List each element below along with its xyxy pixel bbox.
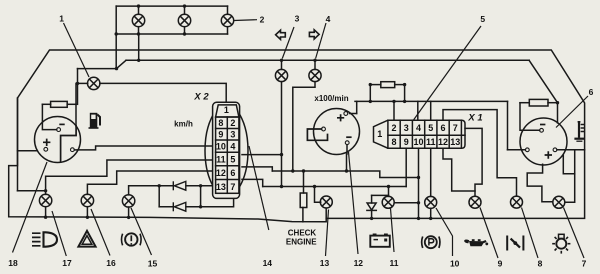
svg-text:3: 3 [295, 14, 300, 24]
svg-text:7: 7 [230, 182, 235, 192]
svg-text:14: 14 [263, 258, 273, 268]
svg-text:ENGINE: ENGINE [286, 237, 317, 246]
svg-text:17: 17 [62, 258, 72, 268]
svg-text:6: 6 [589, 87, 594, 97]
svg-text:km/h: km/h [174, 120, 193, 129]
svg-text:1: 1 [377, 129, 382, 139]
svg-text:13: 13 [320, 258, 330, 268]
svg-text:9: 9 [404, 137, 409, 147]
svg-text:CHECK: CHECK [288, 228, 317, 237]
svg-text:10: 10 [413, 137, 423, 147]
svg-text:4: 4 [230, 142, 235, 152]
svg-text:6: 6 [440, 123, 445, 133]
svg-text:11: 11 [216, 154, 226, 164]
svg-text:8: 8 [391, 137, 396, 147]
svg-text:10: 10 [450, 258, 460, 268]
svg-text:2: 2 [260, 15, 265, 25]
svg-text:13: 13 [450, 137, 460, 147]
svg-text:18: 18 [8, 258, 18, 268]
svg-text:5: 5 [428, 123, 433, 133]
svg-text:2: 2 [391, 123, 396, 133]
svg-text:7: 7 [453, 123, 458, 133]
svg-text:13: 13 [216, 182, 226, 192]
svg-text:x100/min: x100/min [314, 94, 348, 103]
svg-text:8: 8 [218, 118, 223, 128]
svg-text:16: 16 [106, 258, 116, 268]
svg-text:9: 9 [218, 130, 223, 140]
svg-text:X 1: X 1 [467, 113, 482, 124]
svg-text:3: 3 [230, 130, 235, 140]
svg-text:3: 3 [404, 123, 409, 133]
svg-text:10: 10 [216, 142, 226, 152]
svg-text:5: 5 [230, 154, 235, 164]
svg-text:X 2: X 2 [193, 92, 209, 103]
svg-text:12: 12 [438, 137, 448, 147]
svg-text:12: 12 [354, 258, 364, 268]
svg-text:2: 2 [230, 118, 235, 128]
svg-text:11: 11 [390, 258, 399, 268]
svg-text:1: 1 [59, 14, 64, 24]
svg-text:5: 5 [480, 14, 485, 24]
svg-text:7: 7 [582, 258, 587, 268]
svg-text:1: 1 [224, 105, 229, 115]
svg-text:9: 9 [498, 258, 503, 268]
svg-text:4: 4 [416, 123, 421, 133]
svg-text:6: 6 [230, 168, 235, 178]
svg-text:11: 11 [426, 137, 436, 147]
svg-text:8: 8 [538, 258, 543, 268]
svg-text:15: 15 [148, 259, 158, 269]
svg-text:4: 4 [326, 14, 331, 24]
svg-text:12: 12 [216, 168, 226, 178]
